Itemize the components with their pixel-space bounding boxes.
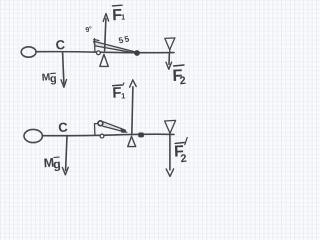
fulcrum triangle (top)	[100, 54, 109, 66]
label Mg (bottom)	[43, 155, 61, 171]
junction square dot (bottom)	[138, 133, 144, 138]
svg-text:55: 55	[118, 33, 132, 45]
node C label (top)	[55, 37, 66, 53]
beam wire (bottom)	[42, 134, 174, 136]
node C label (bottom)	[58, 119, 69, 135]
hinge ring (bottom)	[98, 121, 103, 126]
label F2 (top)	[172, 65, 186, 87]
force arrow F1 (top)	[103, 14, 108, 51]
support triangle top-right (top)	[165, 38, 175, 53]
mass M ellipse (top)	[21, 47, 36, 57]
tilted rod wedge (top)	[94, 41, 136, 53]
force arrow F2 (top)	[166, 53, 172, 69]
label F1 (top)	[112, 5, 125, 24]
angle label 55 (top)	[118, 33, 132, 45]
svg-text:C: C	[55, 37, 66, 53]
force arrow Mg (top)	[61, 52, 67, 87]
svg-text:1: 1	[121, 12, 125, 21]
beam wire (top)	[36, 52, 174, 53]
force arrow Mg (bottom)	[62, 136, 68, 175]
junction dot (top)	[134, 50, 140, 56]
mass M ellipse (bottom)	[24, 129, 42, 142]
support triangle top-right (bottom)	[165, 120, 176, 134]
svg-text:2: 2	[179, 75, 186, 88]
label Mg (top)	[41, 72, 57, 85]
label F1 prime (bottom)	[112, 83, 125, 102]
svg-text:1: 1	[121, 91, 125, 100]
tilted rod wedge with arrow (bottom)	[103, 122, 127, 133]
right-angle bracket (bottom)	[95, 124, 98, 136]
hinge circle on beam (bottom)	[100, 134, 104, 138]
svg-text:C: C	[58, 119, 69, 135]
label 90 degrees (top)	[85, 26, 93, 34]
svg-text:9°: 9°	[85, 26, 93, 34]
label F2 prime (bottom)	[174, 138, 187, 166]
svg-text:g: g	[50, 73, 58, 85]
right-angle mark (top)	[94, 39, 99, 52]
svg-text:2: 2	[180, 153, 187, 166]
force arrow F2 prime (bottom)	[166, 135, 173, 176]
force arrow F1 (bottom)	[130, 80, 137, 135]
svg-text:g: g	[53, 157, 62, 171]
hinge circle on beam (top)	[97, 51, 101, 55]
fulcrum triangle (bottom)	[128, 136, 136, 146]
